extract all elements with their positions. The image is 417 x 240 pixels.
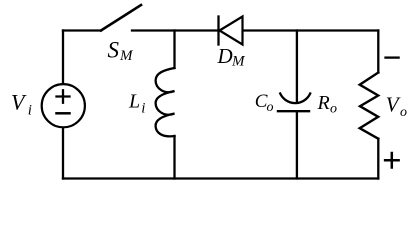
svg-text:o: o [400,105,407,120]
svg-text:L: L [128,91,140,113]
svg-text:M: M [231,54,246,70]
svg-text:S: S [108,37,120,62]
svg-text:o: o [330,102,337,117]
svg-text:V: V [11,90,27,115]
svg-text:D: D [217,44,233,68]
svg-text:R: R [317,92,330,114]
svg-text:i: i [141,101,145,117]
svg-text:o: o [267,100,274,115]
svg-text:M: M [119,48,134,64]
svg-text:V: V [386,93,401,117]
svg-text:i: i [28,103,32,119]
